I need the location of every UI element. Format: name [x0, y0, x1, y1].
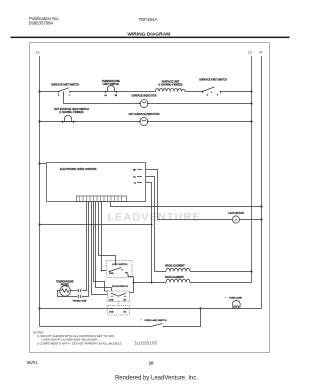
switch oven lamp switch [141, 309, 201, 328]
svg-text:TEF364A: TEF364A [139, 17, 158, 22]
switch lock switch box [107, 261, 133, 278]
svg-text:LOCK MOTOR: LOCK MOTOR [228, 213, 244, 215]
wire N bus [261, 56, 263, 309]
wire L1 to EOC [38, 162, 46, 164]
wire bake element row [134, 282, 252, 284]
svg-text:LOCK SWITCH: LOCK SWITCH [112, 264, 128, 266]
wire broil element row [155, 271, 252, 273]
wire L2 bus [251, 56, 253, 283]
wire L1 bus [39, 56, 41, 327]
wire EOC stub BK to lock motor [146, 170, 158, 220]
connector probe plug top [78, 289, 82, 292]
svg-text:06/01: 06/01 [27, 360, 38, 365]
wire L1 row to bake vertical [38, 223, 152, 225]
sensor temperature probe [56, 280, 77, 296]
wire EOC pin to neutral row [111, 202, 262, 207]
thermal switch temperature limit switch [102, 80, 120, 97]
svg-text:HOT SURFACE INDICATOR: HOT SURFACE INDICATOR [129, 113, 160, 116]
svg-text:ELECTRONIC OVEN CONTROL: ELECTRONIC OVEN CONTROL [60, 168, 98, 171]
header rule [11, 37, 290, 39]
lamp surface indicator [131, 95, 156, 108]
svg-text:BROIL ELEMENT: BROIL ELEMENT [165, 265, 185, 268]
connector probe plug bottom [73, 295, 87, 303]
switch door switch upper [108, 286, 130, 302]
svg-text:OVEN LAMP SWITCH: OVEN LAMP SWITCH [144, 319, 167, 322]
wire lock NO to bake and door [130, 277, 134, 293]
wire connector drop 6 to lock top [99, 202, 116, 261]
heating element broil element [165, 265, 190, 272]
heating element surface unit [156, 81, 185, 92]
svg-text:(1 SHOWN, 4 WIRED): (1 SHOWN, 4 WIRED) [59, 111, 83, 114]
svg-text:M: M [234, 218, 237, 222]
wire connector drop 3 to door com [92, 202, 108, 295]
mechanical link door switch [118, 302, 120, 306]
svg-text:10: 10 [149, 360, 154, 365]
svg-text:5995357984: 5995357984 [29, 21, 54, 26]
svg-text:OVEN LAMP: OVEN LAMP [229, 296, 243, 299]
motor M1 lock motor [228, 213, 244, 223]
svg-text:LEADVENTURE: LEADVENTURE [107, 212, 201, 224]
wire connector drop 7 to lock com [102, 202, 107, 271]
node L2 [248, 51, 252, 283]
svg-text:SURFACE UNIT SWITCH: SURFACE UNIT SWITCH [51, 84, 79, 87]
wire tap from S1 to indicator row [63, 92, 65, 104]
svg-text:L2: L2 [248, 51, 252, 55]
lamp oven lamp [225, 296, 242, 308]
switch door switch lower [108, 306, 130, 316]
op box U1 electronic oven control [47, 163, 146, 202]
wire EOC stub DL to broil [146, 177, 155, 272]
connector P1 EOC plug strip [77, 196, 127, 202]
wire connector drop 5 to door link [96, 202, 112, 292]
switch S1 surface unit switch [51, 84, 79, 97]
switch S2 surface unit switch right [199, 79, 227, 97]
diagram border frame [30, 43, 270, 353]
wire row2 hot surface circuit [38, 120, 252, 122]
wire connector drop 2 to probe bottom [82, 202, 89, 297]
node L1 [36, 51, 40, 327]
wire EOC stub L1 to bake [146, 183, 152, 283]
svg-text:TEMPERATURE: TEMPERATURE [56, 280, 74, 283]
svg-text:1: 1 [69, 95, 70, 97]
svg-text:3: 3 [217, 94, 218, 96]
svg-text:PROBE CONN: PROBE CONN [73, 301, 87, 303]
heating element bake element [165, 276, 190, 283]
svg-text:316255105: 316255105 [134, 341, 157, 346]
svg-text:COM: COM [109, 311, 114, 313]
wire oven lamp row from L1 through door switch [38, 307, 261, 309]
header publication number [29, 16, 59, 26]
svg-text:Rendered by LeadVenture, Inc.: Rendered by LeadVenture, Inc. [115, 375, 198, 381]
svg-text:SURFACE UNIT SWITCH: SURFACE UNIT SWITCH [199, 79, 227, 82]
svg-text:L1: L1 [36, 51, 40, 55]
svg-text:COM: COM [109, 299, 114, 301]
wire connector drop 4 to door top [94, 202, 108, 292]
svg-text:SURFACE INDICATOR: SURFACE INDICATOR [131, 95, 156, 98]
wire row1 surface unit circuit [38, 90, 252, 92]
wire surface indicator row [64, 103, 252, 105]
node N [260, 51, 263, 309]
svg-text:BAKE ELEMENT: BAKE ELEMENT [165, 276, 184, 279]
svg-text:*: * [141, 320, 142, 322]
svg-text:DOOR SWITCH: DOOR SWITCH [112, 286, 128, 288]
svg-text:COM: COM [109, 273, 114, 275]
wire connector drop 1 to probe top [82, 202, 87, 291]
svg-text:(1 SHOWN, 4 WIRED): (1 SHOWN, 4 WIRED) [158, 84, 182, 87]
thermal switch hot surface head switch [54, 108, 89, 123]
notes text block [33, 330, 122, 345]
svg-text:*: * [225, 297, 226, 299]
wire L1 to oven lamp switch [40, 326, 151, 328]
wire lock motor row [158, 219, 262, 221]
lamp hot surface indicator [129, 113, 160, 126]
svg-text:2 COMPONENTS WITH * DO NOT: 2 COMPONENTS WITH * DO NOT APPEAR ON ALL… [37, 341, 123, 345]
